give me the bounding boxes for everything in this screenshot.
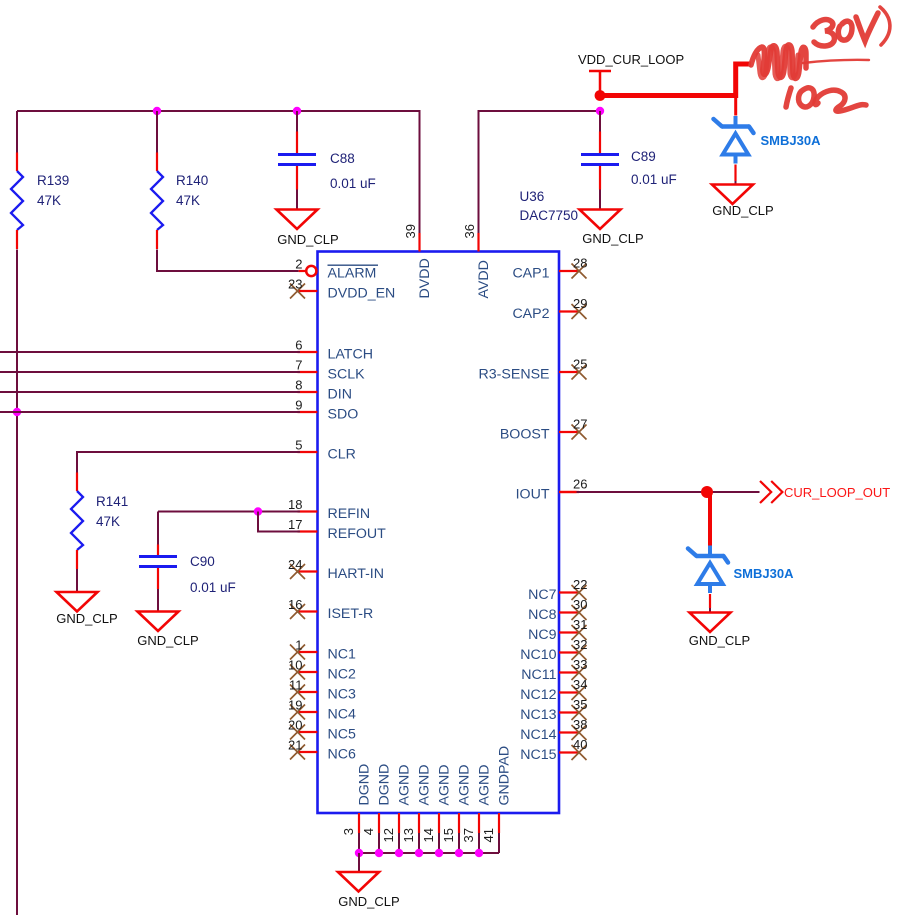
svg-text:AGND: AGND bbox=[457, 765, 473, 806]
ground GND_CLP under R141 bbox=[56, 592, 117, 626]
wire REFIN net bbox=[158, 511, 300, 513]
wire bus to ground symbol bbox=[358, 853, 360, 872]
svg-text:25: 25 bbox=[573, 357, 587, 372]
svg-text:NC10: NC10 bbox=[520, 647, 556, 663]
pin 26 IOUT (right) bbox=[516, 477, 588, 503]
svg-text:NC12: NC12 bbox=[520, 687, 556, 703]
pin C89 bottom bbox=[599, 166, 601, 190]
svg-text:BOOST: BOOST bbox=[500, 427, 550, 443]
wire diode D2 to ground bbox=[709, 608, 711, 613]
pin 14 AGND (bottom) bbox=[421, 765, 453, 854]
svg-text:5: 5 bbox=[295, 438, 302, 453]
junction bus x=419 bbox=[415, 849, 423, 857]
svg-text:DGND: DGND bbox=[357, 764, 373, 806]
svg-text:GND_CLP: GND_CLP bbox=[137, 633, 198, 648]
svg-text:27: 27 bbox=[573, 417, 587, 432]
wire AVDD pin 36 to VDD_CUR_LOOP node bbox=[479, 111, 601, 233]
pin 30 NC8 (right) bbox=[528, 597, 587, 623]
handwritten 30V) bbox=[813, 7, 890, 46]
pin 18 REFIN (left) bbox=[288, 497, 370, 522]
wire rail to R140 bbox=[156, 111, 158, 153]
wire DIN net bbox=[0, 391, 300, 393]
wire C90 to ground bbox=[157, 589, 159, 612]
junction red VDD node bbox=[595, 90, 606, 101]
wire left rail R139 down to SDO and page bottom bbox=[16, 250, 18, 916]
wire rail to R139 bbox=[16, 111, 18, 153]
svg-text:ALARM: ALARM bbox=[328, 266, 377, 282]
svg-text:16: 16 bbox=[288, 597, 302, 612]
pin 6 LATCH (left) bbox=[295, 338, 373, 363]
ground GND_CLP under C88 bbox=[277, 210, 339, 248]
wire SDO net bbox=[0, 411, 300, 413]
wire top rail from R139 to DVDD pin 39 bbox=[17, 111, 420, 233]
svg-text:12: 12 bbox=[381, 828, 396, 842]
wire diode D1 to ground bbox=[735, 181, 737, 185]
pin 5 CLR (left) bbox=[295, 438, 356, 463]
svg-text:GNDPAD: GNDPAD bbox=[497, 746, 513, 806]
pin 16 ISET-R (left) bbox=[288, 597, 373, 622]
svg-text:15: 15 bbox=[441, 828, 456, 842]
pin 1 NC1 (left) bbox=[290, 638, 356, 663]
pin 22 NC7 (right) bbox=[528, 577, 587, 603]
svg-text:GND_CLP: GND_CLP bbox=[56, 611, 117, 626]
svg-text:47K: 47K bbox=[176, 193, 200, 208]
pin C90 top bbox=[157, 545, 159, 556]
pin 39 DVDD (top) bbox=[403, 224, 433, 298]
pin C90 bottom bbox=[157, 568, 159, 589]
svg-text:37: 37 bbox=[461, 828, 476, 842]
svg-text:REFIN: REFIN bbox=[328, 506, 371, 522]
svg-text:NC7: NC7 bbox=[528, 587, 556, 603]
power symbol VDD_CUR_LOOP bbox=[578, 52, 684, 93]
pin 28 CAP1 (right) bbox=[512, 256, 587, 282]
svg-text:21: 21 bbox=[288, 738, 302, 753]
handwritten 10 ohm bbox=[786, 88, 866, 111]
pin 31 NC9 (right) bbox=[528, 617, 587, 643]
op-amp U36 DAC7750 IC body bbox=[318, 252, 560, 814]
pin diode D1 bottom bbox=[734, 165, 736, 182]
pin C89 top bbox=[599, 132, 601, 154]
svg-text:41: 41 bbox=[481, 828, 496, 842]
ground GND_CLP under D1 bbox=[712, 185, 774, 219]
pin 10 NC2 (left) bbox=[288, 658, 356, 683]
svg-text:31: 31 bbox=[573, 617, 587, 632]
wire VDD to diode D1 bbox=[734, 96, 737, 116]
pin 4 DGND (bottom) bbox=[361, 764, 393, 853]
svg-text:29: 29 bbox=[573, 296, 587, 311]
junction bus x=379 bbox=[375, 849, 383, 857]
svg-text:10: 10 bbox=[288, 658, 302, 673]
pin 27 BOOST (right) bbox=[500, 417, 588, 443]
svg-text:LATCH: LATCH bbox=[328, 347, 373, 363]
svg-text:CLR: CLR bbox=[328, 447, 356, 463]
svg-text:NC9: NC9 bbox=[528, 627, 556, 643]
pin 9 SDO (left) bbox=[295, 398, 358, 423]
svg-text:17: 17 bbox=[288, 517, 302, 532]
svg-text:R139: R139 bbox=[37, 173, 69, 188]
svg-text:AGND: AGND bbox=[437, 765, 453, 806]
resistor R139 bbox=[11, 153, 23, 250]
svg-text:28: 28 bbox=[573, 256, 587, 271]
svg-text:C90: C90 bbox=[190, 554, 215, 569]
svg-text:CUR_LOOP_OUT: CUR_LOOP_OUT bbox=[784, 485, 890, 500]
svg-text:4: 4 bbox=[361, 828, 376, 835]
svg-text:C88: C88 bbox=[330, 151, 355, 166]
svg-text:11: 11 bbox=[289, 678, 303, 693]
svg-text:47K: 47K bbox=[96, 514, 120, 529]
pin C88 top bbox=[296, 132, 298, 154]
pin 29 CAP2 (right) bbox=[512, 296, 587, 322]
pin 35 NC13 (right) bbox=[520, 697, 587, 723]
pin 36 AVDD (top) bbox=[462, 224, 492, 298]
svg-text:SDO: SDO bbox=[328, 407, 359, 423]
svg-text:0.01 uF: 0.01 uF bbox=[190, 580, 236, 595]
svg-text:NC1: NC1 bbox=[328, 647, 356, 663]
junction VDD node bbox=[596, 107, 604, 115]
svg-text:VDD_CUR_LOOP: VDD_CUR_LOOP bbox=[578, 52, 684, 67]
resistor R140 bbox=[151, 153, 163, 250]
svg-text:IOUT: IOUT bbox=[516, 487, 550, 503]
pin 33 NC11 (right) bbox=[521, 657, 587, 683]
wire REFOUT branch bbox=[258, 512, 300, 532]
svg-text:34: 34 bbox=[573, 677, 587, 692]
svg-text:35: 35 bbox=[573, 697, 587, 712]
pin 34 NC12 (right) bbox=[520, 677, 587, 703]
svg-text:39: 39 bbox=[403, 224, 418, 238]
svg-text:47K: 47K bbox=[37, 193, 61, 208]
junction C88/rail bbox=[293, 107, 301, 115]
svg-text:SMBJ30A: SMBJ30A bbox=[734, 566, 795, 581]
pin 21 NC6 (left) bbox=[288, 738, 356, 763]
resistor R141 bbox=[71, 473, 83, 570]
capacitor C89 bbox=[581, 155, 619, 165]
pin 8 DIN (left) bbox=[295, 378, 352, 403]
diode D2 SMBJ30A zener bbox=[688, 546, 728, 594]
svg-text:CAP2: CAP2 bbox=[512, 306, 549, 322]
svg-text:22: 22 bbox=[573, 577, 587, 592]
svg-text:18: 18 bbox=[288, 497, 302, 512]
svg-text:AGND: AGND bbox=[397, 765, 413, 806]
svg-text:DIN: DIN bbox=[328, 387, 352, 403]
wire bottom ground bus bbox=[359, 852, 499, 854]
wire R141 to ground bbox=[76, 569, 78, 592]
pin 23 DVDD_EN (left) bbox=[288, 277, 395, 302]
wire IOUT to port bbox=[577, 491, 760, 493]
pin 32 NC10 (right) bbox=[520, 637, 587, 663]
pin 19 NC4 (left) bbox=[288, 698, 356, 723]
svg-text:GND_CLP: GND_CLP bbox=[689, 633, 750, 648]
junction IOUT node (red) bbox=[701, 486, 713, 498]
pin 41 GNDPAD (bottom) bbox=[481, 746, 513, 853]
svg-text:DAC7750: DAC7750 bbox=[520, 208, 579, 223]
svg-text:8: 8 bbox=[295, 378, 302, 393]
pin 37 AGND (bottom) bbox=[461, 765, 493, 854]
svg-text:3: 3 bbox=[341, 828, 356, 835]
svg-text:CAP1: CAP1 bbox=[512, 266, 549, 282]
wire IOUT node to diode D2 bbox=[708, 492, 712, 546]
svg-text:GND_CLP: GND_CLP bbox=[338, 894, 399, 909]
svg-text:SCLK: SCLK bbox=[328, 367, 366, 383]
svg-text:NC14: NC14 bbox=[520, 727, 556, 743]
svg-text:AGND: AGND bbox=[417, 765, 433, 806]
wire C88 to ground bbox=[296, 190, 298, 210]
svg-text:HART-IN: HART-IN bbox=[328, 566, 385, 582]
svg-text:7: 7 bbox=[295, 358, 302, 373]
handwritten lead line bbox=[803, 60, 869, 63]
wire R140 to ALARM pin 2 bbox=[157, 250, 299, 272]
ground GND_CLP under C89 bbox=[580, 210, 644, 247]
svg-text:0.01 uF: 0.01 uF bbox=[631, 172, 677, 187]
ground GND_CLP bottom bbox=[338, 872, 400, 909]
pin 2 ALARM (left) bbox=[295, 257, 378, 282]
svg-text:33: 33 bbox=[573, 657, 587, 672]
wire LATCH net bbox=[0, 351, 300, 353]
svg-text:1: 1 bbox=[295, 638, 302, 653]
wire thick red VDD_CUR_LOOP to external resistor bbox=[600, 64, 751, 96]
diode D1 SMBJ30A zener bbox=[714, 116, 754, 164]
pin 13 AGND (bottom) bbox=[401, 765, 433, 854]
port CUR_LOOP_OUT chevron bbox=[760, 481, 782, 503]
svg-text:R141: R141 bbox=[96, 494, 128, 509]
pin C88 bottom bbox=[296, 166, 298, 190]
capacitor C88 bbox=[278, 155, 316, 165]
svg-text:24: 24 bbox=[288, 557, 302, 572]
svg-text:23: 23 bbox=[288, 277, 302, 292]
junction R140/rail bbox=[153, 107, 161, 115]
svg-text:NC2: NC2 bbox=[328, 667, 356, 683]
pin 12 AGND (bottom) bbox=[381, 765, 413, 854]
wire VDD node down to C89 bbox=[599, 111, 601, 132]
svg-text:NC13: NC13 bbox=[520, 707, 556, 723]
svg-text:2: 2 bbox=[295, 257, 302, 272]
svg-text:GND_CLP: GND_CLP bbox=[277, 232, 338, 247]
svg-text:REFOUT: REFOUT bbox=[328, 526, 387, 542]
pin 7 SCLK (left) bbox=[295, 358, 365, 383]
wire SCLK net bbox=[0, 371, 300, 373]
svg-text:9: 9 bbox=[295, 398, 302, 413]
svg-text:6: 6 bbox=[295, 338, 302, 353]
pin 24 HART-IN (left) bbox=[288, 557, 384, 582]
pin IOUT stub bbox=[559, 491, 577, 493]
ground GND_CLP under C90 bbox=[137, 612, 198, 649]
svg-text:NC11: NC11 bbox=[521, 667, 556, 683]
svg-text:ISET-R: ISET-R bbox=[328, 606, 374, 622]
svg-text:32: 32 bbox=[573, 637, 587, 652]
pin 25 R3-SENSE (right) bbox=[479, 357, 588, 383]
svg-text:U36: U36 bbox=[520, 189, 545, 204]
svg-text:NC8: NC8 bbox=[528, 607, 556, 623]
handwritten resistor squiggle (10 ohm) bbox=[751, 45, 806, 79]
svg-text:NC5: NC5 bbox=[328, 727, 356, 743]
svg-text:0.01 uF: 0.01 uF bbox=[330, 176, 376, 191]
svg-text:DGND: DGND bbox=[377, 764, 393, 806]
junction bus x=479 bbox=[475, 849, 483, 857]
pin diode D2 bottom bbox=[709, 594, 711, 608]
svg-text:20: 20 bbox=[288, 718, 302, 733]
svg-text:SMBJ30A: SMBJ30A bbox=[761, 133, 822, 148]
svg-text:36: 36 bbox=[462, 224, 477, 238]
wire CLR to R141 bbox=[77, 452, 300, 476]
junction left rail / SDO bbox=[13, 408, 21, 416]
svg-text:GND_CLP: GND_CLP bbox=[712, 203, 773, 218]
svg-text:40: 40 bbox=[573, 737, 587, 752]
pin 38 NC14 (right) bbox=[520, 717, 587, 743]
wire REFIN down to C90 bbox=[157, 512, 159, 545]
junction bus x=359 bbox=[355, 849, 363, 857]
wire rail to C88 bbox=[296, 111, 298, 132]
junction REFIN/REFOUT bbox=[254, 507, 262, 515]
capacitor C90 bbox=[139, 557, 177, 567]
svg-text:NC6: NC6 bbox=[328, 747, 356, 763]
junction bus x=459 bbox=[455, 849, 463, 857]
svg-text:GND_CLP: GND_CLP bbox=[582, 231, 643, 246]
svg-text:AGND: AGND bbox=[477, 765, 493, 806]
pin 11 NC3 (left) bbox=[289, 678, 356, 703]
pin 40 NC15 (right) bbox=[520, 737, 587, 763]
pin 20 NC5 (left) bbox=[288, 718, 356, 743]
svg-text:30: 30 bbox=[573, 597, 587, 612]
wire C89 to ground bbox=[599, 190, 601, 210]
svg-text:C89: C89 bbox=[631, 149, 656, 164]
pin 15 AGND (bottom) bbox=[441, 765, 473, 854]
svg-text:DVDD_EN: DVDD_EN bbox=[328, 286, 396, 302]
svg-text:38: 38 bbox=[573, 717, 587, 732]
svg-text:DVDD: DVDD bbox=[417, 258, 433, 298]
svg-text:14: 14 bbox=[421, 828, 436, 842]
svg-text:NC4: NC4 bbox=[328, 707, 356, 723]
svg-text:NC3: NC3 bbox=[328, 687, 356, 703]
svg-text:R140: R140 bbox=[176, 173, 208, 188]
pin 17 REFOUT (left) bbox=[288, 517, 386, 542]
ground GND_CLP under D2 bbox=[689, 613, 750, 649]
svg-text:R3-SENSE: R3-SENSE bbox=[479, 367, 550, 383]
svg-text:AVDD: AVDD bbox=[476, 260, 492, 298]
junction bus x=399 bbox=[395, 849, 403, 857]
svg-text:NC15: NC15 bbox=[520, 747, 556, 763]
pin 3 DGND (bottom) bbox=[341, 764, 373, 853]
svg-text:13: 13 bbox=[401, 828, 416, 842]
svg-text:19: 19 bbox=[288, 698, 302, 713]
svg-text:26: 26 bbox=[573, 477, 587, 492]
junction bus x=439 bbox=[435, 849, 443, 857]
